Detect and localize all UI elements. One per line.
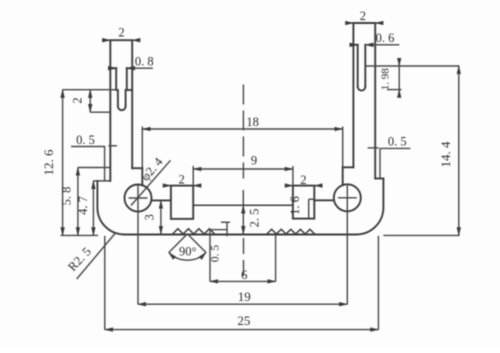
svg-text:2: 2 [178,173,184,187]
svg-text:0. 6: 0. 6 [376,31,395,45]
svg-text:5. 8: 5. 8 [60,187,74,206]
svg-text:2: 2 [118,26,124,40]
svg-text:25: 25 [237,313,250,328]
svg-text:0. 5: 0. 5 [388,135,407,149]
svg-text:18: 18 [246,115,259,129]
svg-text:0. 5: 0. 5 [76,133,95,147]
svg-text:90°: 90° [179,244,197,258]
svg-text:0. 8: 0. 8 [135,55,154,69]
svg-text:3: 3 [142,214,156,220]
svg-text:2. 5: 2. 5 [248,209,262,228]
svg-text:12. 6: 12. 6 [41,149,56,176]
svg-text:2: 2 [71,97,85,103]
svg-text:1. 98: 1. 98 [380,68,392,91]
svg-text:0. 5: 0. 5 [210,245,222,263]
svg-text:1. 6: 1. 6 [288,196,302,215]
svg-text:9: 9 [251,153,257,167]
svg-text:6: 6 [241,267,248,282]
svg-text:4. 7: 4. 7 [76,196,90,215]
svg-text:19: 19 [238,289,251,304]
svg-text:2: 2 [300,173,306,187]
svg-text:14. 4: 14. 4 [438,141,453,168]
svg-text:2: 2 [360,9,366,23]
